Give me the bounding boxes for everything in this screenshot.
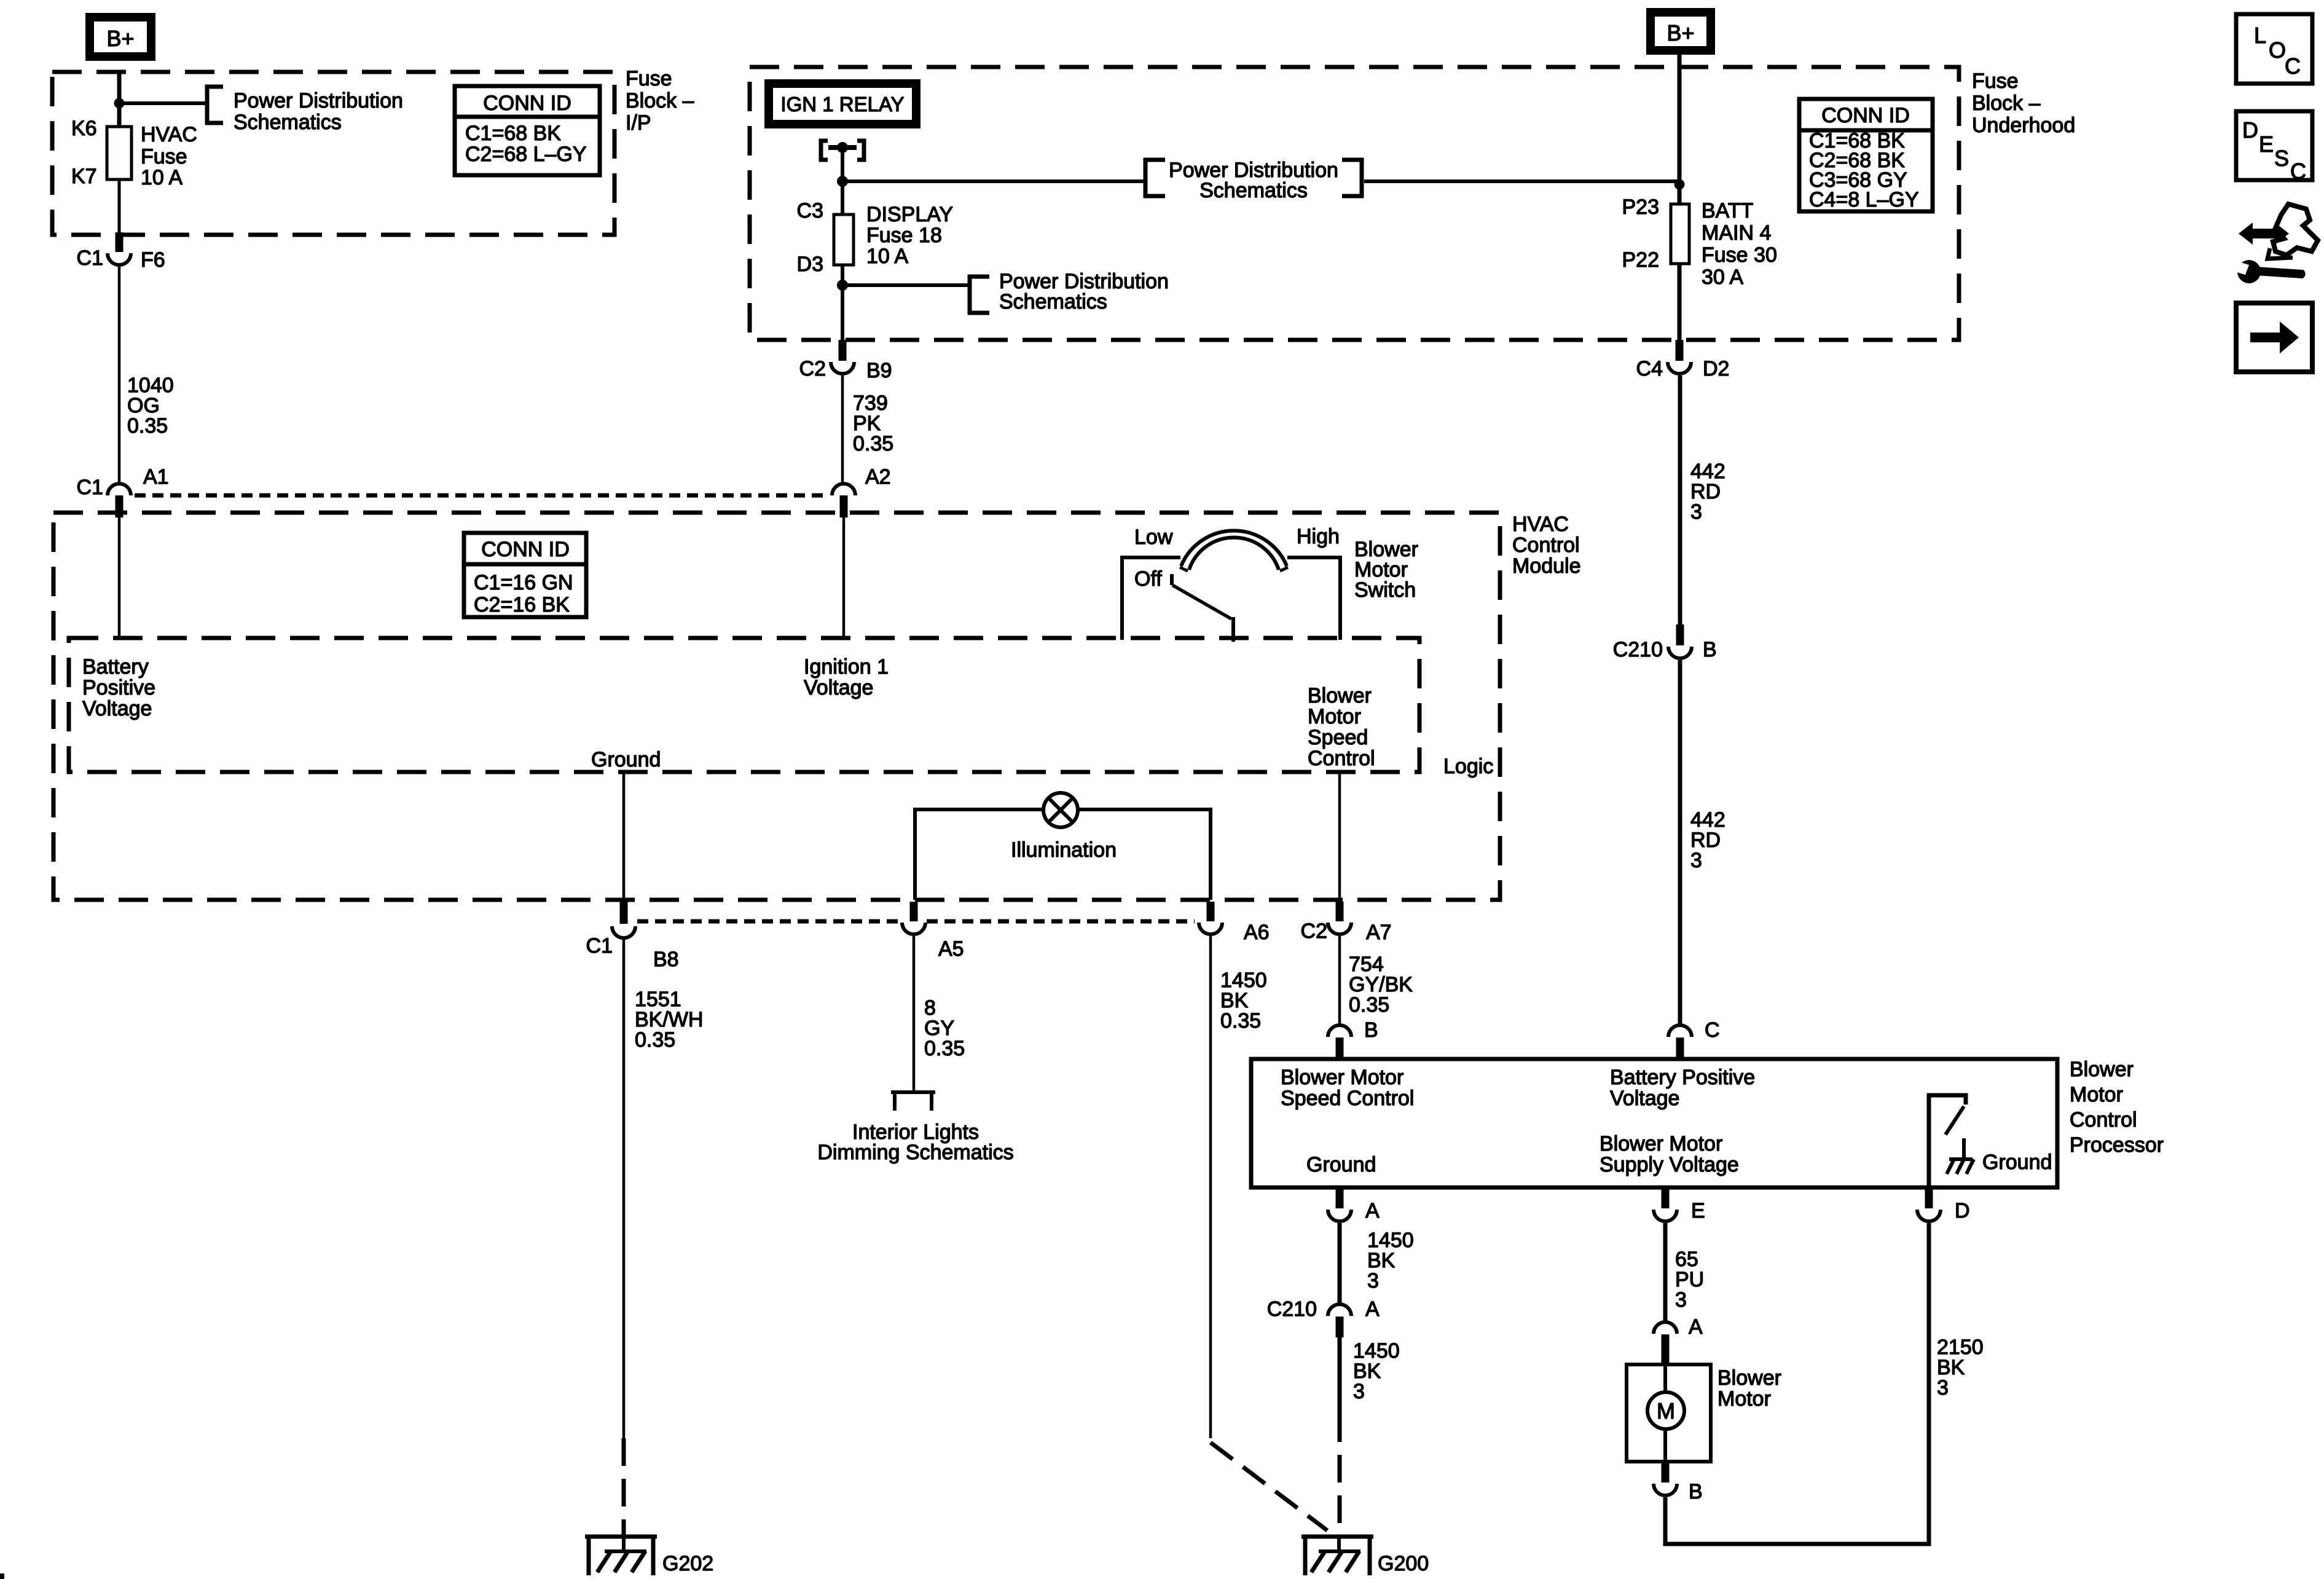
connector socket C2/B9 [831, 362, 854, 374]
wire fuse D3 to junction2 [841, 265, 844, 288]
switch pivot tick [1170, 574, 1174, 585]
svg-text:DISPLAY: DISPLAY [866, 203, 953, 226]
svg-text:A: A [1365, 1297, 1380, 1321]
svg-text:K7: K7 [71, 165, 97, 188]
wire B+ to junction [117, 72, 122, 126]
svg-text:3: 3 [1675, 1288, 1687, 1312]
connector socket C210/A [1328, 1304, 1351, 1316]
label B (blower motor) [1689, 1480, 1703, 1503]
svg-text:C2=68 L–GY: C2=68 L–GY [465, 143, 587, 166]
svg-text:B9: B9 [866, 359, 892, 382]
wire junction2 to PDS bracket3 [842, 283, 970, 287]
label 739 PK 0.35 [853, 392, 893, 455]
label C1 (A1) [77, 476, 103, 499]
svg-text:3: 3 [1937, 1376, 1949, 1400]
motor symbol M [1647, 1364, 1684, 1462]
wire C210/B to C (442 RD) [1678, 660, 1682, 1025]
connector socket C1/A1 [108, 484, 131, 495]
label Blower Motor (motor) [1717, 1366, 1781, 1411]
label K7 [71, 165, 97, 188]
label C210 (A) [1267, 1297, 1317, 1321]
svg-text:30 A: 30 A [1702, 266, 1743, 289]
label A (blower motor) [1689, 1315, 1703, 1339]
fuse HVAC Fuse 10A [107, 127, 132, 179]
svg-text:CONN ID: CONN ID [481, 538, 570, 561]
label Fuse Block - I/P [626, 67, 694, 135]
wire D2 to C210/B (442 RD) [1678, 376, 1682, 626]
svg-text:C4=8 L–GY: C4=8 L–GY [1809, 188, 1919, 211]
connector socket C (processor) [1668, 1025, 1692, 1037]
wire A6 down (1450 BK) [1209, 936, 1212, 1438]
wire relay to junction [841, 153, 844, 184]
connector pin B9 [839, 340, 847, 361]
wire junction to PDS bracket [119, 101, 207, 105]
connector socket A (blower motor) [1654, 1322, 1677, 1334]
connector pin D (processor) [1925, 1187, 1933, 1208]
label G202 [662, 1552, 713, 1575]
svg-text:B+: B+ [106, 26, 134, 51]
icon arrows and wrench [2231, 204, 2318, 283]
connector socket C4/D2 [1668, 362, 1691, 374]
junction dot left [114, 98, 125, 109]
power symbol B+ (underhood) [1651, 12, 1711, 50]
wire F6 to A1 (1040 OG) [118, 267, 121, 484]
CONN ID table (fuse block I/P) [455, 86, 600, 175]
svg-text:C210: C210 [1613, 638, 1663, 661]
svg-text:3: 3 [1690, 849, 1702, 872]
svg-text:Switch: Switch [1354, 578, 1416, 602]
fuse BATT MAIN 4 [1671, 204, 1689, 264]
label 65 PU 3 [1675, 1248, 1704, 1312]
svg-text:Ground: Ground [591, 748, 661, 771]
connector socket C1/B8 [612, 926, 635, 938]
wire fuse to C1/F6 [118, 179, 121, 234]
svg-text:E: E [2259, 132, 2274, 157]
label 442 RD 3 (upper) [1690, 460, 1725, 524]
internal switch to ground (processor) [1929, 1095, 1974, 1186]
wire junction to BATT fuse [1678, 184, 1682, 204]
dashed wire A6 to G200 [1211, 1443, 1327, 1530]
label F6 [141, 248, 165, 272]
svg-text:IGN 1 RELAY: IGN 1 RELAY [780, 93, 904, 116]
label Off [1134, 567, 1162, 591]
svg-text:C: C [2290, 159, 2306, 184]
label A1 [143, 465, 169, 489]
blower motor control processor box [1251, 1059, 2057, 1187]
connector pin B (processor) [1336, 1038, 1344, 1059]
label A5 [938, 937, 964, 961]
label B (C210) [1703, 638, 1717, 661]
svg-text:I/P: I/P [626, 111, 651, 135]
label P22 [1622, 248, 1660, 272]
wire relay junction to fuse C3 [841, 181, 844, 215]
svg-text:A7: A7 [1366, 921, 1392, 944]
CONN ID table (underhood) [1799, 99, 1933, 211]
connector pin A5 [910, 902, 918, 921]
svg-text:C: C [1705, 1018, 1720, 1042]
label BATT MAIN 4 Fuse 30 30 A [1702, 199, 1777, 289]
dashed wire to G202 [622, 1438, 626, 1537]
svg-text:Fuse: Fuse [1972, 69, 2019, 93]
connector socket A (processor) [1328, 1210, 1351, 1221]
wire B to bottom corner (2150 BK) [1665, 1223, 1929, 1544]
svg-text:Motor: Motor [2070, 1083, 2123, 1106]
junction dot display [837, 280, 848, 291]
connector socket D (processor) [1917, 1210, 1941, 1221]
svg-text:B+: B+ [1666, 20, 1694, 45]
label Battery Positive Voltage [82, 655, 155, 720]
connector socket C2/A2 [832, 484, 855, 495]
wire BATT fuse to C4/D2 [1678, 264, 1682, 341]
wire A5 down (8 GY) [913, 936, 916, 1092]
label Ground (processor right) [1982, 1151, 2052, 1174]
fuse block - I/P dashed box [52, 72, 614, 235]
svg-text:CONN ID: CONN ID [1821, 104, 1910, 127]
svg-text:Battery: Battery [82, 655, 149, 679]
svg-text:B: B [1703, 638, 1717, 661]
svg-text:0.35: 0.35 [127, 414, 168, 438]
svg-text:High: High [1297, 525, 1340, 548]
blower motor switch arc Low-High [1180, 530, 1288, 571]
svg-text:Fuse: Fuse [626, 67, 672, 90]
label C1 (B8) [586, 934, 613, 958]
logic inner dashed box [69, 638, 1419, 772]
label C2 (B9) [799, 357, 826, 380]
connector pin E (processor) [1662, 1187, 1670, 1208]
label 1450 BK 0.35 [1220, 969, 1267, 1033]
connector socket E (processor) [1654, 1210, 1677, 1221]
svg-text:Ground: Ground [1982, 1151, 2052, 1174]
svg-text:Schematics: Schematics [234, 111, 342, 134]
off-page bracket interior lights [891, 1090, 935, 1111]
svg-text:10 A: 10 A [141, 166, 183, 189]
label C (processor) [1705, 1018, 1720, 1042]
svg-text:Blower: Blower [1308, 684, 1372, 707]
svg-text:B8: B8 [653, 948, 679, 971]
label C3 [797, 199, 823, 222]
svg-text:Control: Control [1308, 747, 1375, 770]
label D2 [1703, 357, 1729, 380]
svg-text:Control: Control [2070, 1108, 2137, 1132]
svg-text:Fuse: Fuse [141, 145, 187, 168]
wire A7 down (754 GY/BK) [1338, 936, 1341, 1025]
label Battery Positive Voltage (processor) [1610, 1066, 1755, 1110]
svg-text:C2=16 BK: C2=16 BK [474, 593, 570, 616]
svg-text:K6: K6 [71, 117, 97, 140]
svg-text:C2: C2 [799, 357, 826, 380]
svg-text:3: 3 [1690, 500, 1702, 524]
connector pin A6 [1207, 902, 1215, 921]
label 442 RD 3 (lower) [1690, 808, 1725, 872]
ground symbol G200 [1301, 1535, 1373, 1575]
illumination lamp [1043, 793, 1078, 827]
svg-text:0.35: 0.35 [924, 1037, 965, 1060]
label Logic [1443, 755, 1493, 778]
svg-text:Schematics: Schematics [1199, 179, 1308, 202]
svg-text:A6: A6 [1244, 921, 1270, 944]
svg-text:C2: C2 [1301, 919, 1327, 943]
svg-text:Logic: Logic [1443, 755, 1493, 778]
connector pin A (processor) [1336, 1187, 1344, 1208]
svg-text:MAIN 4: MAIN 4 [1702, 221, 1771, 245]
label C1 (F6) [77, 246, 103, 270]
svg-text:Blower Motor: Blower Motor [1281, 1066, 1403, 1089]
label A (C210) [1365, 1297, 1380, 1321]
svg-text:C210: C210 [1267, 1297, 1317, 1321]
label Power Distribution Schematics (display) [999, 270, 1169, 313]
svg-text:0.35: 0.35 [635, 1028, 675, 1052]
connector socket C1/A5 [902, 923, 925, 934]
svg-text:Speed: Speed [1308, 726, 1368, 749]
svg-text:D: D [2242, 117, 2258, 143]
svg-text:0.35: 0.35 [853, 432, 893, 455]
dashed wire to G200 [1338, 1414, 1342, 1537]
svg-text:Off: Off [1134, 567, 1162, 591]
wire A to C210/A (1450 BK 3) [1338, 1223, 1342, 1304]
svg-text:B: B [1689, 1480, 1703, 1503]
label Illumination [1011, 838, 1117, 862]
svg-text:Battery Positive: Battery Positive [1610, 1066, 1755, 1089]
connector pin F6 [116, 232, 124, 252]
illumination lamp wire left [913, 808, 1043, 900]
svg-text:Voltage: Voltage [804, 676, 873, 699]
svg-text:Low: Low [1134, 526, 1173, 549]
svg-text:M: M [1657, 1398, 1675, 1423]
svg-text:G200: G200 [1378, 1552, 1429, 1575]
svg-text:P22: P22 [1622, 248, 1660, 272]
svg-text:Ground: Ground [1306, 1153, 1376, 1176]
label A6 [1244, 921, 1270, 944]
svg-text:Dimming Schematics: Dimming Schematics [817, 1141, 1013, 1164]
label C210 (B) [1613, 638, 1663, 661]
off-page bracket PDS top-right [1342, 158, 1364, 198]
svg-text:Blower Motor: Blower Motor [1600, 1132, 1722, 1156]
label 1450 BK 3 (lower) [1353, 1339, 1400, 1403]
label C4 [1636, 357, 1663, 380]
label HVAC Control Module [1512, 513, 1581, 578]
svg-text:A: A [1365, 1199, 1380, 1223]
icon arrow box [2236, 303, 2312, 372]
connector socket C2/A7 [1328, 923, 1351, 934]
svg-text:BATT: BATT [1702, 199, 1753, 222]
svg-text:10 A: 10 A [866, 245, 908, 268]
wire junction to PDS bracket (top) [842, 179, 1145, 183]
svg-text:C1=68 BK: C1=68 BK [465, 122, 561, 145]
label A7 [1366, 921, 1392, 944]
label 8 GY 0.35 [924, 996, 965, 1060]
label High [1297, 525, 1340, 548]
svg-text:P23: P23 [1622, 195, 1660, 219]
junction dot relay [837, 176, 848, 187]
connector pin B8 [620, 902, 628, 924]
label G200 [1378, 1552, 1429, 1575]
label B (processor) [1364, 1018, 1378, 1042]
label P23 [1622, 195, 1660, 219]
connector socket C210/B [1668, 647, 1692, 658]
connector socket B (blower motor) [1654, 1484, 1677, 1495]
connector pin C (processor) [1676, 1038, 1684, 1059]
label DISPLAY Fuse 18 10 A [866, 203, 953, 268]
svg-text:B: B [1364, 1018, 1378, 1042]
connector pin A7 [1336, 902, 1344, 921]
svg-text:3: 3 [1353, 1380, 1365, 1403]
label B9 [866, 359, 892, 382]
svg-text:Schematics: Schematics [999, 290, 1107, 313]
svg-text:HVAC: HVAC [1512, 513, 1569, 536]
wire speed control to A7 [1338, 772, 1341, 904]
svg-text:Fuse 30: Fuse 30 [1702, 243, 1777, 267]
svg-text:Speed Control: Speed Control [1281, 1087, 1414, 1110]
label E (processor) [1691, 1199, 1705, 1223]
icon LOC box [2236, 14, 2312, 84]
svg-text:Underhood: Underhood [1972, 114, 2075, 137]
svg-text:C3: C3 [797, 199, 823, 222]
junction dot underhood [1674, 179, 1685, 190]
label Blower Motor Speed Control (processor) [1281, 1066, 1414, 1110]
label Low [1134, 526, 1173, 549]
label Blower Motor Speed Control (logic) [1308, 684, 1375, 770]
svg-text:Illumination: Illumination [1011, 838, 1117, 862]
off-page bracket Power Distribution Schematics (I/P) [205, 85, 223, 125]
wire ground (HVAC) to B8 [622, 772, 626, 904]
label D3 [797, 253, 823, 276]
power symbol B+ (fuse block I/P) [90, 17, 151, 57]
switch lever [1172, 585, 1233, 642]
icon DESC box [2236, 111, 2312, 184]
ground symbol G202 [585, 1535, 657, 1575]
connector pin C210/A [1336, 1317, 1344, 1337]
svg-text:Blower: Blower [1717, 1366, 1781, 1390]
connector socket B (processor) [1328, 1025, 1351, 1037]
svg-text:CONN ID: CONN ID [483, 92, 571, 115]
label 1040 OG 0.35 [127, 374, 174, 438]
svg-text:Positive: Positive [82, 676, 155, 699]
connector pin B (blower motor) [1662, 1462, 1670, 1483]
svg-text:C: C [2285, 53, 2301, 79]
label Fuse Block - Underhood [1972, 69, 2075, 137]
label Interior Lights Dimming Schematics [817, 1120, 1013, 1164]
svg-text:Module: Module [1512, 554, 1581, 578]
wire B+ right to junction [1678, 55, 1682, 186]
label 2150 BK 3 [1937, 1336, 1984, 1400]
dotted harness line C1 (top) [135, 494, 828, 498]
CONN ID table (HVAC module) [464, 533, 586, 617]
svg-text:D2: D2 [1703, 357, 1729, 380]
fuse block - underhood dashed box [750, 67, 1959, 340]
svg-text:Voltage: Voltage [1610, 1087, 1679, 1110]
label HVAC Fuse 10 A [141, 123, 197, 189]
blower motor box [1627, 1364, 1711, 1462]
label D (processor) [1955, 1199, 1970, 1223]
label C2 (A7) [1301, 919, 1327, 943]
connector pin A1 [116, 495, 124, 518]
speck bottom-left [0, 1573, 4, 1579]
illumination lamp wire right [1078, 808, 1212, 900]
wire E down (65 PU) [1663, 1223, 1668, 1322]
svg-text:Block –: Block – [626, 89, 694, 112]
svg-text:F6: F6 [141, 248, 165, 272]
svg-text:D3: D3 [797, 253, 823, 276]
connector socket C1/F6 [108, 253, 131, 265]
svg-text:C1=16 GN: C1=16 GN [474, 571, 573, 594]
svg-text:Processor: Processor [2070, 1133, 2164, 1157]
svg-text:E: E [1691, 1199, 1705, 1223]
label B8 [653, 948, 679, 971]
svg-text:Voltage: Voltage [82, 697, 152, 720]
wire B9 to A2 (739 PK) [841, 376, 844, 484]
wire A1 into HVAC module [118, 518, 121, 638]
svg-text:0.35: 0.35 [1220, 1009, 1261, 1033]
svg-text:3: 3 [1367, 1269, 1379, 1293]
label 754 GY/BK 0.35 [1349, 953, 1413, 1017]
svg-text:D: D [1955, 1199, 1970, 1223]
connector pin A2 [840, 495, 848, 518]
svg-text:Blower: Blower [2070, 1058, 2134, 1081]
connector pin C210/B [1676, 624, 1684, 645]
connector pin A (blower motor) [1662, 1334, 1670, 1364]
svg-text:A: A [1689, 1315, 1703, 1339]
svg-text:Block –: Block – [1972, 92, 2041, 115]
svg-text:Motor: Motor [1308, 705, 1361, 728]
wire PDS bracket to underhood junction [1364, 179, 1679, 183]
label Power Distribution Schematics (top) [1169, 159, 1338, 202]
svg-text:A2: A2 [865, 465, 891, 489]
label Blower Motor Supply Voltage [1600, 1132, 1739, 1176]
svg-text:Supply Voltage: Supply Voltage [1600, 1153, 1739, 1176]
label K6 [71, 117, 97, 140]
label A2 [865, 465, 891, 489]
svg-text:Motor: Motor [1717, 1387, 1771, 1411]
label 1450 BK 3 (upper) [1367, 1229, 1414, 1293]
svg-text:G202: G202 [662, 1552, 713, 1575]
svg-text:0.35: 0.35 [1349, 993, 1389, 1017]
label Blower Motor Control Processor [2070, 1058, 2164, 1157]
svg-text:S: S [2274, 146, 2289, 171]
off-page bracket PDS top-left [1144, 158, 1165, 198]
label Power Distribution Schematics (I/P) [234, 89, 403, 134]
HVAC control module dashed box [53, 513, 1500, 900]
label Blower Motor Switch [1354, 538, 1418, 602]
label Ignition 1 Voltage [804, 655, 889, 699]
relay contact symbol [821, 141, 864, 160]
svg-text:C4: C4 [1636, 357, 1663, 380]
label Ground (processor left) [1306, 1153, 1376, 1176]
svg-text:L: L [2254, 23, 2266, 48]
label A (processor) [1365, 1199, 1380, 1223]
wire C210/A down [1338, 1337, 1342, 1414]
fuse DISPLAY Fuse 18 [834, 215, 854, 265]
connector pin D2 [1676, 340, 1684, 361]
relay box IGN 1 RELAY [769, 84, 916, 124]
svg-text:Ignition 1: Ignition 1 [804, 655, 889, 679]
svg-text:Control: Control [1512, 534, 1580, 557]
dotted harness line C1 (bottom) [637, 919, 1195, 924]
label Ground (HVAC) [591, 748, 661, 771]
svg-text:C1: C1 [77, 476, 103, 499]
svg-text:A1: A1 [143, 465, 169, 489]
blower motor switch body [1120, 557, 1342, 640]
svg-text:Fuse 18: Fuse 18 [866, 224, 942, 247]
svg-text:A5: A5 [938, 937, 964, 961]
wire junction2 to C2/B9 [841, 285, 844, 341]
connector socket C1/A6 [1199, 923, 1222, 934]
svg-text:Power Distribution: Power Distribution [234, 89, 403, 112]
svg-text:C1: C1 [586, 934, 613, 958]
wire A2 into HVAC module [842, 518, 846, 638]
svg-text:HVAC: HVAC [141, 123, 197, 146]
wire B8 down (1551 BK/WH) [622, 940, 626, 1438]
svg-text:C1: C1 [77, 246, 103, 270]
